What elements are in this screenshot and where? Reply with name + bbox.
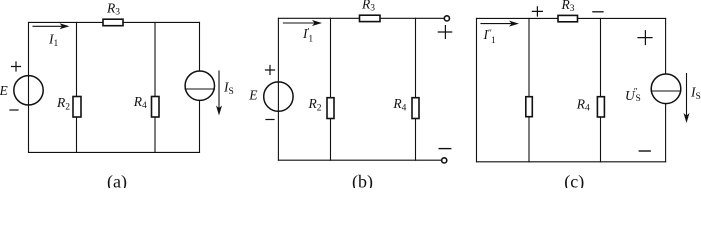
arrow I1 (a) (33, 23, 70, 29)
wire: (b) R4 branch (415, 18, 417, 160)
terminal top (b) (444, 16, 449, 21)
arrow I1' (b) (283, 20, 322, 26)
polarity - of E (a) (10, 109, 18, 111)
arrow IS (a) (216, 71, 222, 116)
wire: (a) top left segment (29, 21, 104, 23)
wire: (a) bottom (29, 151, 200, 153)
wire: (c) right vertical with IS (665, 18, 667, 161)
wire: (a) R4 branch (154, 22, 156, 152)
resistor R3 (b) (360, 15, 381, 21)
svg-text:(c): (c) (564, 172, 584, 188)
svg-text:(a): (a) (107, 172, 127, 188)
wire: (a) R2 branch (76, 22, 78, 152)
current source IS (a) (185, 71, 214, 100)
wire: (c) bottom (477, 161, 666, 163)
polarity - terminal (b) (439, 148, 451, 150)
svg-text:(b): (b) (352, 172, 373, 188)
resistor R4 (c) (597, 97, 604, 117)
voltage source E (a) (14, 76, 43, 105)
polarity + R3 left (c) (532, 7, 542, 16)
wire: (b) bottom (278, 159, 441, 161)
wire: (c) top right segment (578, 17, 666, 19)
resistor R4 (a) (152, 97, 160, 118)
wire: (c) top left segment (477, 17, 559, 19)
current source IS (c) (651, 74, 681, 104)
resistor R3 (c) (558, 15, 578, 21)
resistor R2 (b) (327, 98, 334, 119)
terminal bottom (b) (442, 158, 447, 163)
polarity + of E (a) (12, 62, 21, 71)
wire: (b) top right segment (380, 17, 444, 19)
svg-text:E: E (248, 88, 258, 103)
resistor branch1 (c) (526, 97, 533, 117)
polarity - of E (b) (266, 119, 274, 121)
wire: (a) left vertical with E (28, 22, 30, 152)
wire: (b) R2 branch (330, 18, 332, 160)
arrow I1'' (c) (481, 21, 519, 27)
wire: (c) left vertical (476, 18, 478, 161)
wire: (b) left vertical with E (277, 18, 279, 160)
polarity - US (c) (639, 150, 650, 152)
wire: (c) branch 1 (528, 18, 530, 161)
wire: (a) right vertical with IS (199, 22, 201, 152)
svg-text:E: E (0, 83, 9, 98)
wire: (c) R4 branch (600, 18, 602, 161)
polarity + US (c) (638, 31, 652, 45)
arrow IS (c) (684, 74, 690, 124)
resistor R2 (a) (73, 97, 81, 118)
polarity - R3 right (c) (593, 11, 603, 13)
polarity + terminal (b) (438, 26, 451, 39)
resistor R3 (a) (103, 19, 123, 26)
resistor R4 (b) (412, 98, 419, 119)
wire: (a) top right segment (123, 21, 200, 23)
voltage source E (b) (264, 82, 293, 111)
wire: (b) top left segment (278, 17, 359, 19)
polarity + of E (b) (266, 66, 275, 75)
